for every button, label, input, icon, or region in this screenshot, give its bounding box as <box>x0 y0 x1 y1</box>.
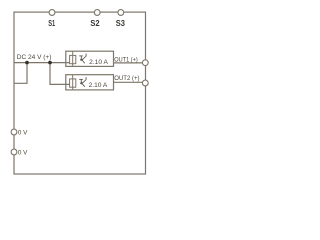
terminal OUT1 <box>142 60 148 66</box>
svg-text:0 V: 0 V <box>18 129 28 136</box>
wire DC feed <box>14 62 70 64</box>
terminal 0V lower <box>11 149 17 155</box>
switch Q1 <box>79 54 86 64</box>
breaker box F2 <box>66 75 114 90</box>
svg-text:OUT2 (+): OUT2 (+) <box>114 75 139 82</box>
svg-text:S1: S1 <box>48 18 55 28</box>
svg-text:2.10 A: 2.10 A <box>89 82 108 89</box>
terminal 0V upper <box>11 129 17 135</box>
junction dot A <box>25 61 29 65</box>
fuse F2 <box>70 75 76 90</box>
fuse F1 <box>70 51 76 66</box>
svg-text:S2: S2 <box>90 18 99 28</box>
switch Q2 <box>79 77 86 87</box>
terminal S1 <box>49 10 55 16</box>
terminal OUT2 <box>142 80 148 86</box>
svg-text:DC 24 V (+): DC 24 V (+) <box>17 54 52 61</box>
wire branch left drop <box>14 63 27 84</box>
module outline <box>14 12 146 174</box>
svg-text:2.10 A: 2.10 A <box>89 59 108 66</box>
wire branch right drop <box>50 63 70 85</box>
wire OUT2 <box>114 81 143 83</box>
terminal S3 <box>118 10 124 16</box>
breaker box F1 <box>66 51 114 66</box>
svg-text:0 V: 0 V <box>18 150 28 157</box>
wire OUT1 <box>114 62 143 64</box>
junction dot B <box>48 61 52 65</box>
svg-text:S3: S3 <box>116 18 125 28</box>
terminal S2 <box>94 10 100 16</box>
svg-text:OUT1 (+): OUT1 (+) <box>114 56 138 63</box>
